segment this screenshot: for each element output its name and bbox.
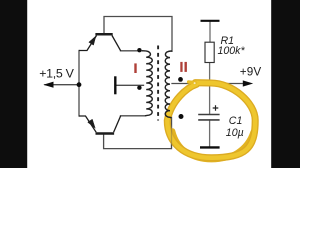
wire: C1 bottom to ground terminal	[209, 120, 211, 147]
+9V supply arrow	[243, 80, 253, 86]
svg-text:+9V: +9V	[240, 66, 262, 79]
wire: +1,5V feed	[45, 84, 79, 86]
winding label II	[180, 62, 182, 72]
svg-text:10µ: 10µ	[226, 127, 244, 139]
winding polarity dot (primary centre)	[137, 86, 141, 90]
wire: T2 collector to primary bottom	[121, 115, 146, 117]
transformer secondary winding II	[165, 51, 172, 118]
yellow highlight marker ellipse around C1	[167, 82, 255, 160]
wire: top terminal to R1	[209, 22, 211, 43]
battery terminal bar (top)	[201, 20, 220, 22]
+1,5 V supply arrow	[43, 82, 53, 88]
wire: T1 collector to primary top	[121, 50, 143, 52]
wire seen through highlight	[171, 118, 173, 148]
ground terminal bar (bottom)	[200, 146, 220, 148]
wire: base T2 down, bottom rail to secondary bottom	[104, 117, 172, 149]
secondary winding seen through highlight	[165, 104, 171, 118]
svg-text:C1: C1	[229, 115, 243, 127]
battery terminal bar (centre tap, left)	[114, 76, 116, 94]
wire: centre-tap terminal to primary tap	[116, 84, 144, 86]
right letterbox bar	[271, 0, 300, 168]
transformer core	[157, 46, 159, 121]
winding polarity dot (primary top)	[137, 48, 141, 52]
wire: R1 bottom through +9V node to C1	[209, 62, 211, 114]
svg-text:100k*: 100k*	[218, 45, 246, 57]
transistor Q1 (top, PNP)	[79, 34, 121, 51]
winding label I	[134, 63, 136, 73]
C1 plus sign	[213, 105, 219, 111]
svg-text:+1,5 V: +1,5 V	[39, 67, 74, 81]
resistor R1	[205, 42, 214, 62]
node: junction dot on emitter rail	[77, 82, 82, 87]
capacitor C1 plates	[198, 114, 219, 116]
transistor Q2 (bottom, PNP)	[79, 116, 121, 134]
wire: secondary tap to +9V	[172, 83, 249, 85]
wire: +1,5V emitter rail	[78, 51, 80, 117]
wire: base T1 up, top rail to secondary top	[104, 17, 172, 52]
winding polarity dot (secondary upper)	[178, 77, 183, 82]
transformer primary winding I	[142, 51, 152, 116]
left letterbox bar	[0, 0, 27, 168]
winding polarity dot (secondary lower, over highlight)	[179, 114, 184, 119]
